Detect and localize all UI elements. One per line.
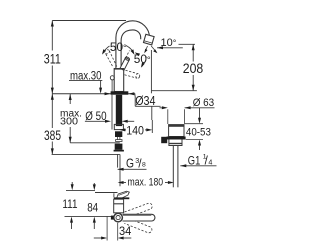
handle lever solid [120, 56, 130, 70]
dimension 111 arrows [71, 182, 73, 185]
hose fitting block1 dark [115, 131, 122, 137]
faucet body column [114, 69, 124, 92]
plan spout bar dashed up [125, 203, 153, 218]
svg-text:111: 111 [62, 198, 77, 211]
svg-text:84: 84 [87, 202, 98, 215]
rod tails below [117, 154, 119, 167]
plan handle base dark edge [114, 197, 130, 199]
hose lines below block1 [116, 137, 118, 140]
svg-text:8: 8 [142, 161, 146, 168]
svg-text:40-53: 40-53 [186, 127, 211, 139]
pop-up rod below deck [111, 95, 113, 130]
plan spout bar dashed down [124, 218, 152, 233]
drain tailpipe [172, 146, 174, 188]
arc arrow 50deg no2 [142, 57, 147, 67]
plan handle tip [117, 191, 130, 198]
escutcheon dark base [111, 91, 129, 94]
drain deck dark band [167, 137, 186, 140]
extension lines 34 [106, 216, 108, 241]
wire 385 bottom extension [52, 153, 120, 155]
svg-text:4: 4 [208, 158, 212, 167]
wire 208 top extension [179, 43, 196, 45]
plan body [114, 199, 124, 213]
10 degree swing arc arrows [145, 46, 147, 51]
svg-text:34: 34 [119, 225, 132, 238]
wire max300 bottom extension [70, 142, 120, 144]
dimension 140 [125, 129, 127, 131]
hose fitting block2 dark [115, 144, 123, 150]
pop-up rod knob [110, 76, 114, 80]
spout arc tube [116, 21, 150, 70]
mounting nut [114, 124, 123, 129]
dashed handle left position [104, 49, 117, 67]
svg-text:50°: 50° [110, 40, 127, 54]
plan hub ring [114, 213, 123, 222]
svg-text:300: 300 [60, 117, 78, 128]
dimension max300 line [69, 94, 72, 143]
dimension 385 line [51, 94, 54, 155]
svg-text:max. 180: max. 180 [128, 176, 164, 188]
dimension arrows d34 at base [104, 93, 105, 95]
dimension max 180 [118, 181, 124, 184]
dimension 311 line [51, 21, 54, 94]
wire 140 right extension [151, 120, 153, 133]
d63 arrows [160, 107, 162, 109]
dimension 34 [94, 237, 101, 239]
wire top line A [66, 189, 95, 191]
drain lever knob [161, 137, 167, 143]
wire top line B [95, 192, 118, 194]
wire 208 bottom extension [152, 90, 197, 92]
small hex collar [116, 140, 122, 142]
drain flange box [169, 125, 184, 137]
dimension 208 [192, 44, 195, 90]
dashed handle right position [125, 70, 141, 79]
wire spout axis extension [65, 216, 113, 218]
spout outlet mousseur [143, 34, 154, 45]
svg-text:311: 311 [44, 51, 61, 66]
svg-text:Ø 63: Ø 63 [193, 97, 215, 109]
plan hub left nub [111, 216, 114, 220]
deck line [52, 93, 135, 95]
svg-text:208: 208 [183, 61, 204, 76]
svg-text:140: 140 [126, 126, 144, 138]
arc arrows 50deg no1 [103, 46, 109, 53]
drain body below deck [169, 140, 182, 146]
leader arrow max.30 to deck [100, 80, 102, 92]
wire outlet vertical extension [150, 50, 152, 93]
d63 extension lines [167, 109, 169, 124]
dashed handle up-right line [124, 51, 130, 62]
under-deck shank dark [116, 95, 122, 126]
dimension 40-53 [199, 108, 201, 118]
svg-text:385: 385 [44, 128, 61, 143]
wire top extension line 311 [52, 20, 126, 22]
plan spout bar solid [123, 214, 155, 221]
dimension 84 arrows [93, 183, 95, 185]
svg-text:G: G [126, 156, 134, 171]
